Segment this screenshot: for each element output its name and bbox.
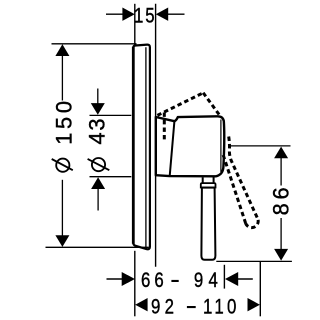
diameter 43 lower line (97, 188, 99, 211)
diameter 43 bottom tick (90, 176, 132, 178)
valve body and sleeve outline (156, 116, 224, 176)
escutcheon plate inner rim line (145, 47, 147, 248)
lever shaft neck (203, 178, 214, 184)
dimension 86 line upper (280, 157, 282, 186)
dimension 15 left arrow tail (106, 13, 123, 15)
dimension text 92-110 hyphen (187, 306, 196, 308)
escutcheon plate outline (133, 45, 150, 250)
dimension 86 top extension line (228, 145, 291, 147)
diameter 43 circle slash (88, 159, 110, 170)
diameter 150 top extension line (52, 43, 137, 45)
diameter 43 circle glyph (92, 158, 105, 171)
diameter 150 bottom arrowhead (55, 235, 69, 247)
sleeve-body divider line (170, 121, 175, 176)
diameter 43 top tick (90, 114, 132, 116)
diameter 150 circle slash (52, 159, 73, 170)
svg-text:92: 92 (151, 294, 178, 319)
dimension 92-110 right arrowhead (248, 298, 260, 311)
dashed lever raised: shaft right edge (229, 137, 258, 220)
diameter 150 dimension line upper (61, 55, 63, 101)
dimension 86 bottom extension line (216, 260, 292, 262)
diameter 43 lower arrowhead (91, 177, 105, 189)
diameter 150 bottom extension line (46, 246, 149, 248)
svg-text:43: 43 (85, 117, 110, 145)
svg-text:66: 66 (141, 268, 168, 293)
dimension 66-94 left arrowhead (122, 272, 135, 286)
diameter 150 dimension line lower (61, 180, 63, 236)
dimension 92-110 right extension line (259, 262, 261, 317)
dimension text 66-94 hyphen (171, 280, 178, 282)
dashed lever raised: body top edge (157, 93, 203, 116)
svg-text:110: 110 (203, 294, 240, 319)
diameter 150 circle glyph (56, 159, 69, 172)
dashed lever raised: end cap (246, 219, 259, 227)
dashed lever raised: shaft left edge (223, 155, 245, 223)
diameter 150 top arrowhead (55, 44, 69, 56)
dimension 86 line lower (280, 218, 282, 250)
wall line (155, 4, 157, 267)
lever shaft grip (201, 188, 215, 260)
dimension 92-110 left arrowhead (135, 298, 147, 311)
dashed lever raised: body right face (203, 93, 220, 116)
dimension 66-94 right arrow tail (237, 278, 253, 280)
svg-text:15: 15 (134, 4, 156, 29)
dimension 66-94 right arrowhead (225, 272, 238, 286)
svg-text:86: 86 (268, 184, 293, 216)
dimension 15 right arrowhead (156, 8, 168, 21)
dimension 86 top arrowhead (274, 147, 288, 159)
escutcheon plate front face thick edge (132, 47, 135, 244)
dimension 15 right arrow tail (168, 13, 185, 15)
dimension 86 bottom arrowhead (274, 249, 288, 261)
dimension 66-94 right extension line (223, 265, 225, 289)
dimension 15 left arrowhead (122, 8, 134, 21)
dimension 66-94 left arrow tail (107, 278, 125, 280)
valve body inner contour line (220, 120, 222, 173)
svg-text:150: 150 (52, 97, 77, 144)
diameter 43 upper arrowhead (91, 103, 105, 115)
extension line left (plate front face) top (134, 4, 136, 45)
diameter 43 upper line (97, 89, 99, 105)
lever shaft collar (201, 183, 216, 187)
dashed lever raised: sleeve left remnant (163, 113, 166, 142)
extension line left (plate front face) bottom (134, 251, 136, 316)
svg-text:94: 94 (194, 268, 223, 293)
